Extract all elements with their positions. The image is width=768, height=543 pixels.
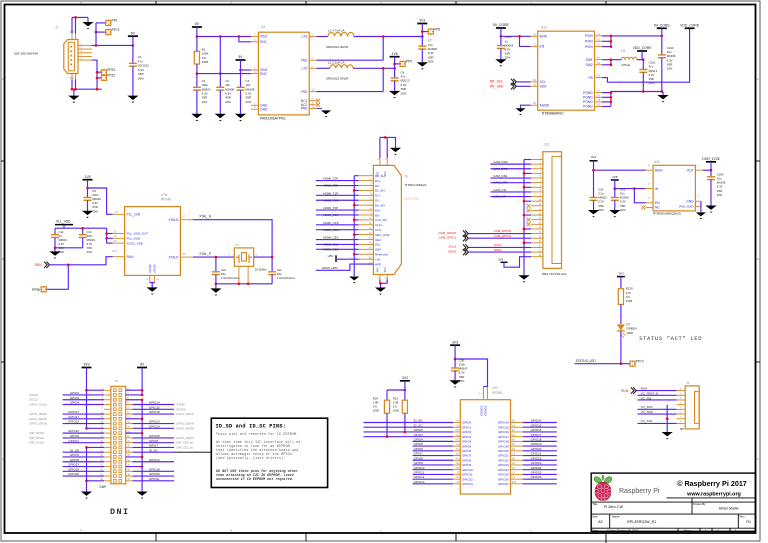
svg-text:J10: J10 (544, 142, 549, 146)
wire HDMI_CKP (316, 224, 359, 226)
svg-text:U7N: U7N (161, 193, 168, 197)
wire C7 to ground (421, 49, 423, 62)
wire 3V3 to R130 (620, 277, 622, 289)
svg-text:ID_SD: ID_SD (414, 419, 424, 423)
wire AVIN (501, 35, 531, 37)
wire GPIO11 J8 (63, 442, 104, 444)
wire DDR_1V35 bar (710, 162, 712, 170)
junction (132, 44, 135, 47)
svg-text:X1: X1 (235, 243, 239, 247)
wire GPIO7 J8 (133, 446, 174, 448)
resistor R23 (402, 400, 407, 413)
wire 3V3 down C30 (454, 345, 456, 359)
pin 9 J6 (359, 214, 374, 216)
wire SW join (610, 60, 612, 65)
crystal X1 element (236, 253, 252, 263)
wire PP6 stub (422, 31, 428, 33)
junction gnd pin 16 (523, 228, 526, 231)
pin X1 gnd2 (238, 266, 240, 284)
pin 2 J6 (359, 180, 374, 182)
pin GPIO4 U7C (453, 440, 460, 442)
wire HDMI_T1N (316, 199, 359, 201)
pin GND U20 (695, 200, 701, 202)
svg-text:1.0x0.8x0.9mm: 1.0x0.8x0.9mm (221, 276, 240, 280)
svg-text:3V3: 3V3 (452, 340, 458, 344)
svg-text:PAM2306AYPKE: PAM2306AYPKE (260, 116, 286, 120)
wire VDDIO to C30 (455, 359, 487, 387)
svg-text:PP1: PP1 (112, 19, 118, 23)
wire INT_SDA (517, 85, 531, 87)
svg-text:EN2: EN2 (260, 72, 267, 76)
wire HDMI_T2N (316, 185, 359, 187)
wire shield pin 1 (354, 175, 358, 177)
wire PLL_VDD_OUT (107, 233, 113, 235)
svg-text:STATUS_LED: STATUS_LED (576, 359, 597, 363)
junction gnd pin 7 (523, 186, 526, 189)
pin 19 J8 (104, 432, 111, 434)
pin AGND1 (149, 275, 151, 282)
wire EN2 rail (197, 73, 251, 75)
test point PP73 (106, 28, 120, 35)
wire C20 to ground (593, 200, 595, 210)
pin 7 J5 (677, 418, 686, 420)
wire RUN to PP98 (47, 265, 69, 290)
junction (215, 256, 218, 259)
wire GPIO23 (523, 464, 557, 466)
ground AGND (515, 108, 525, 115)
junction (74, 88, 77, 91)
junction (610, 101, 613, 104)
svg-text:GPIO27: GPIO27 (68, 415, 79, 419)
junction (610, 91, 613, 94)
pin 10 J8 (126, 408, 133, 410)
pin PGND U16 (595, 92, 602, 94)
wire gnd stub pin 13 (524, 214, 531, 216)
pin GPIO10 U7C (453, 469, 460, 471)
wire 5V_CORE bar (661, 28, 663, 36)
power flag H5V (335, 255, 337, 262)
power 3V3 C30 (450, 340, 460, 345)
capacitor C10 (212, 272, 220, 275)
wire VIN2 (241, 69, 252, 71)
svg-text:GPIO21: GPIO21 (498, 454, 509, 458)
pin GPIO18 U7C (511, 440, 523, 442)
title block dividers (591, 498, 755, 531)
pin 28 J8 (126, 451, 133, 453)
svg-text:GPIO27: GPIO27 (498, 482, 509, 486)
wire to PP72 (621, 363, 630, 365)
svg-text:GPIO21: GPIO21 (149, 477, 160, 481)
svg-text:GPIO16: GPIO16 (149, 467, 160, 471)
inductor L2 (330, 65, 353, 69)
junction (141, 394, 144, 397)
wire GPIO8 J8 (133, 442, 174, 444)
pin AGND2 (154, 275, 156, 282)
svg-text:VDDIO3: VDDIO3 (484, 405, 488, 416)
pin VIN1 U3 (251, 36, 258, 38)
wire PVIN to 5V_CORE (611, 35, 662, 37)
wire GPIO10 (413, 469, 454, 471)
pin 11 J10 (531, 205, 543, 207)
svg-text:A: A (2, 77, 4, 81)
pin EN U20 (646, 202, 653, 204)
wire FB1 sense (382, 37, 384, 61)
pin GPIO25 U7C (511, 473, 523, 475)
svg-text:M0603: M0603 (59, 238, 68, 242)
pin 1 J1 (78, 44, 92, 46)
svg-text:GPIO23: GPIO23 (149, 420, 160, 424)
svg-text:GPIO18: GPIO18 (149, 410, 160, 414)
wire C162 down (642, 72, 644, 91)
junction (610, 96, 613, 99)
wire SH2 up (386, 137, 388, 158)
wire rail to ground (662, 92, 664, 96)
svg-text:GPIO11: GPIO11 (68, 439, 79, 443)
wire GPIO12 J8 (133, 461, 174, 463)
wire SW2 (602, 64, 611, 66)
pin PLL_VDD_OUT (113, 233, 125, 235)
pin (487, 387, 489, 400)
test point PP9 1V8 (400, 60, 412, 67)
wire HDMI_CEC (316, 239, 359, 241)
svg-text:1005: 1005 (202, 60, 209, 64)
pin GPIO24 U7C (511, 469, 523, 471)
pin 17 J10 (531, 233, 543, 235)
svg-text:Title: Title (592, 502, 598, 506)
svg-text:D2-: D2- (375, 184, 380, 188)
wire gnd stub pin 16 (524, 228, 531, 230)
connector J6 body (373, 165, 401, 274)
wire to C6 (394, 68, 396, 78)
pin GPIO21 U7C (511, 455, 523, 457)
svg-text:Rev: Rev (740, 515, 746, 519)
wire bottom ground stem (380, 283, 382, 287)
pin 39 J8 (104, 480, 111, 482)
no-connect (527, 204, 531, 208)
svg-text:SDA0: SDA0 (448, 249, 456, 253)
svg-text:SH3: SH3 (376, 267, 380, 273)
svg-text:H5V: H5V (328, 254, 334, 258)
pin X1 gnd4 (247, 266, 249, 284)
pin PVIN U16 (595, 46, 602, 48)
svg-text:GPIO20: GPIO20 (531, 447, 542, 451)
wire GPIO2 (364, 431, 454, 433)
wire CAM_GPIO1 (468, 237, 531, 239)
pin 16 J10 (531, 228, 543, 230)
wire to PP73 (96, 31, 106, 33)
svg-text:HDMI_T2N: HDMI_T2N (323, 184, 338, 188)
wire (666, 405, 668, 432)
wire GPIO26 (523, 478, 557, 480)
wire SH1 up (379, 137, 381, 158)
pin SCL U16 (531, 81, 538, 83)
pin 16 J6 (359, 248, 374, 250)
capacitor C162 (639, 70, 647, 73)
no-connect (316, 99, 320, 103)
junction (404, 431, 407, 434)
junction (642, 58, 645, 61)
wire XOSC_VDD (107, 242, 113, 244)
pin 23 J8 (104, 442, 111, 444)
wire (86, 447, 88, 491)
svg-text:GPIO22: GPIO22 (498, 458, 509, 462)
svg-text:GPIO19: GPIO19 (68, 467, 79, 471)
svg-text:D1+: D1+ (375, 194, 381, 198)
pin 32 J8 (126, 461, 133, 463)
svg-text:GPIO15: GPIO15 (531, 423, 542, 427)
wire GPIO11 (413, 473, 454, 475)
junction (141, 465, 144, 468)
wire GPIO20 (523, 450, 557, 452)
svg-text:SRN2012-2R2M: SRN2012-2R2M (326, 77, 349, 81)
pin 1 J6 (359, 175, 374, 177)
svg-text:Friday, October 15, 2021: Friday, October 15, 2021 (608, 528, 639, 532)
ground C4 (235, 114, 246, 121)
pin 4 J8 (126, 394, 133, 396)
wire VC_TDO (638, 408, 677, 410)
pin 22 J8 (126, 437, 133, 439)
wire GPIO14 J8 (133, 404, 174, 406)
power 3V3 U20 bar (590, 160, 598, 162)
wire GPIO21 (523, 455, 557, 457)
svg-text:20%: 20% (620, 208, 626, 212)
off-page SDA0 (463, 249, 468, 255)
svg-text:SW1: SW1 (586, 58, 593, 62)
inductor L1 (328, 32, 354, 36)
pin GPIO27 U7C (511, 483, 523, 485)
junction (454, 358, 457, 361)
wire HDMI_T2P (316, 180, 359, 182)
svg-text:1005: 1005 (393, 409, 400, 413)
wire PGND 97.3 (602, 96, 611, 98)
svg-text:GPIO5: GPIO5 (462, 444, 472, 448)
svg-text:PWI_GND: PWI_GND (679, 205, 694, 209)
pin XTALP (180, 256, 193, 258)
svg-text:ID_SD and ID_SC PINS:: ID_SD and ID_SC PINS: (216, 424, 287, 430)
wire PVIN join (610, 36, 612, 47)
junction (610, 64, 613, 67)
ground C3 (215, 114, 226, 121)
ground U20 (696, 212, 706, 219)
svg-text:SCL0: SCL0 (494, 243, 502, 247)
svg-text:GPIO24: GPIO24 (498, 468, 509, 472)
wire pin4 5V (126, 394, 142, 396)
wire R24 top (386, 390, 388, 400)
connector J10 body (543, 152, 562, 269)
SoC U7C body (460, 400, 510, 494)
pin GPIO17 U7C (511, 436, 523, 438)
wire PLL_VDD rail (55, 227, 107, 229)
pin 4 J6 (359, 189, 374, 191)
svg-text:GPIO17: GPIO17 (531, 433, 542, 437)
pin MP1 stub (71, 34, 73, 40)
pin 38 J8 (126, 475, 133, 477)
svg-text:GPIO14: GPIO14 (531, 419, 542, 423)
svg-text:R1: R1 (746, 520, 751, 524)
wire SH join bottom (380, 282, 387, 284)
junction (661, 35, 664, 38)
svg-text:RPI-ZERO2W_R1: RPI-ZERO2W_R1 (627, 520, 656, 524)
pin BIAS U20 (646, 169, 653, 171)
svg-text:RP3A0: RP3A0 (161, 198, 171, 202)
pin SW2 U16 (595, 64, 602, 66)
wire pin5 to ground rail (92, 60, 97, 89)
pin 22 J10 (531, 256, 543, 258)
pin 8 J10 (531, 191, 543, 193)
svg-text:GND: GND (260, 107, 268, 111)
svg-text:1608: 1608 (626, 331, 633, 335)
regulator U20 body (653, 165, 695, 211)
wire (141, 400, 143, 492)
wire 3V3 down (593, 161, 595, 170)
ground C1 (127, 96, 138, 103)
pin MP2 stub (71, 74, 73, 80)
capacitor C12 (51, 235, 59, 238)
svg-text:Name: Name (612, 515, 620, 519)
junction (141, 389, 144, 392)
svg-text:X5R: X5R (87, 246, 92, 250)
svg-text:GPIO3: GPIO3 (414, 433, 424, 437)
capacitor C21 (611, 198, 619, 201)
svg-text:GPIO19: GPIO19 (498, 444, 509, 448)
svg-text:5V: 5V (238, 55, 243, 59)
svg-text:RT9081N1BGQZA(3): RT9081N1BGQZA(3) (653, 211, 681, 215)
svg-text:M00-715-001-022: M00-715-001-022 (542, 272, 567, 276)
svg-text:RP3A0: RP3A0 (492, 391, 502, 395)
svg-text:(SPI_CE0_N): (SPI_CE0_N) (176, 441, 193, 445)
pin 2 J1 (78, 48, 92, 50)
svg-text:U20: U20 (654, 160, 660, 164)
pin 6 J8 (126, 399, 133, 401)
pin 6 J10 (531, 182, 543, 184)
pin 4 J1 (78, 55, 92, 57)
svg-text:A: A (757, 77, 759, 81)
svg-text:PP6: PP6 (434, 27, 440, 31)
wire to C2 (196, 74, 198, 88)
junction (610, 35, 613, 38)
pin OUT U20 (695, 169, 702, 171)
wire GPIO15 (523, 426, 557, 428)
power VDD_CORE at L3 (633, 46, 653, 51)
junction (404, 389, 407, 392)
pin 21 J8 (104, 437, 111, 439)
svg-text:PLL_VDD: PLL_VDD (127, 237, 141, 241)
svg-text:CLK_SH: CLK_SH (375, 218, 387, 222)
junction (666, 417, 669, 420)
wire SDA0 (468, 251, 531, 253)
pin 10 J6 (359, 219, 374, 221)
svg-text:ID_SC: ID_SC (414, 423, 424, 427)
wire GPIO22 J8 (63, 423, 104, 425)
ground top of J1 (82, 22, 93, 29)
svg-text:D0-: D0- (375, 213, 380, 217)
pin 25 J8 (104, 446, 111, 448)
svg-text:CAM_DP0: CAM_DP0 (493, 167, 508, 171)
svg-text:(RXD0): (RXD0) (176, 407, 185, 411)
wire CAM_GPIO0 (468, 233, 531, 235)
svg-text:10%: 10% (202, 100, 208, 104)
svg-text:GPIO4: GPIO4 (462, 440, 472, 444)
svg-text:GPIO14: GPIO14 (498, 421, 509, 425)
wire GPIO25 J8 (133, 437, 174, 439)
svg-text:CAM_DN0: CAM_DN0 (493, 160, 508, 164)
wire bar stem (63, 225, 65, 229)
capacitor C4 (237, 87, 245, 90)
svg-text:C13: C13 (87, 230, 92, 234)
svg-text:Size: Size (592, 515, 598, 519)
svg-text:CAM_CN: CAM_CN (493, 188, 506, 192)
wire VC_TRST_N (638, 394, 677, 396)
ground J6 bottom (375, 288, 386, 295)
junction gnd pin 13 (523, 214, 526, 217)
svg-text:GPIO23: GPIO23 (531, 461, 542, 465)
junction (661, 90, 664, 93)
pin 18 J6 (359, 258, 374, 260)
svg-text:ID_SC: ID_SC (149, 448, 159, 452)
wire HDMI_T0N (316, 214, 359, 216)
wire 5V_CORE down (500, 28, 502, 36)
svg-text:(SPI_SCLK): (SPI_SCLK) (29, 441, 44, 445)
capacitor C20 (590, 198, 598, 201)
junction (610, 45, 613, 48)
wire to ground (151, 283, 153, 288)
junction (610, 58, 613, 61)
junction (86, 187, 89, 190)
svg-text:1V8: 1V8 (612, 175, 618, 179)
junction gnd pin 4 (523, 172, 526, 175)
svg-text:NA: NA (456, 420, 460, 423)
wire R1 bottom (196, 64, 198, 74)
ground U7N AGND (147, 287, 158, 294)
svg-text:PGND: PGND (583, 91, 593, 95)
svg-text:LX2: LX2 (302, 67, 308, 71)
wire to ground (54, 248, 56, 252)
svg-text:R21: R21 (113, 250, 118, 253)
wire to C30 (454, 359, 456, 368)
svg-text:A3: A3 (598, 520, 602, 524)
power 1V8 PLL (83, 175, 93, 180)
wire GPIO25 (523, 473, 557, 475)
svg-text:U3: U3 (261, 25, 265, 29)
pin GPIO16 U7C (511, 431, 523, 433)
ground C9 (82, 211, 93, 218)
junction (271, 256, 274, 259)
wire GPIO17 (523, 436, 557, 438)
svg-text:XTALN: XTALN (168, 218, 179, 222)
capacitor C11 (268, 272, 276, 275)
svg-text:220n: 220n (87, 234, 93, 238)
wire FB to VDD_CORE (602, 29, 690, 82)
power 5V at R1 (192, 22, 202, 27)
pin 18 J10 (531, 237, 543, 239)
pin 9 J8 (104, 408, 111, 410)
svg-text:SH4: SH4 (383, 267, 387, 273)
junction (239, 69, 242, 72)
pin 8 J6 (359, 209, 374, 211)
pin SW1 U16 (595, 59, 602, 61)
svg-text:PGND: PGND (583, 105, 593, 109)
junction (393, 63, 396, 66)
svg-text:GPIO8: GPIO8 (462, 458, 472, 462)
wire gnd stub pin 10 (524, 200, 531, 202)
svg-text:CAM_GPIO0: CAM_GPIO0 (438, 231, 456, 235)
power 5V_CORE at caps (654, 24, 671, 29)
svg-text:GPIO22: GPIO22 (68, 420, 79, 424)
svg-text:20%: 20% (246, 100, 252, 104)
wire R24 bottom (386, 413, 388, 436)
pin 34 J8 (126, 466, 133, 468)
wire test point branch (95, 23, 97, 46)
